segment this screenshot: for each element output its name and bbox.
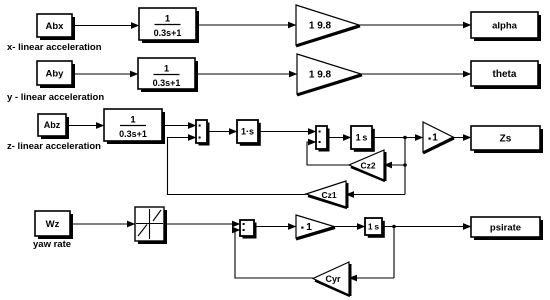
svg-text:1: 1 [306,221,312,233]
svg-text:y - linear acceleration: y - linear acceleration [7,92,104,103]
svg-text:Aby: Aby [46,68,65,79]
svg-text:Abz: Abz [44,120,61,130]
svg-text:1: 1 [164,64,170,75]
svg-text:1 s: 1 s [356,133,368,143]
svg-text:Wz: Wz [46,219,60,230]
svg-text:Zs: Zs [500,134,512,145]
svg-text:0.3s+1: 0.3s+1 [119,129,147,139]
svg-text:1 9.8: 1 9.8 [309,70,332,81]
svg-text:1 s: 1 s [368,222,379,232]
svg-text:1: 1 [432,133,438,144]
svg-text:theta: theta [493,69,517,80]
svg-text:0.3s+1: 0.3s+1 [154,28,182,38]
svg-text:x- linear acceleration: x- linear acceleration [7,42,102,53]
svg-text:alpha: alpha [492,20,518,31]
svg-text:psirate: psirate [490,222,521,233]
svg-text:1·s: 1·s [241,127,254,137]
svg-text:Abx: Abx [46,21,65,32]
svg-text:Cz2: Cz2 [360,161,375,171]
svg-text:yaw rate: yaw rate [33,239,71,250]
svg-text:0.3s+1: 0.3s+1 [153,78,181,88]
svg-text:z- linear acceleration: z- linear acceleration [7,141,101,152]
svg-text:1: 1 [130,115,136,126]
svg-text:Cz1: Cz1 [321,190,336,200]
svg-text:1: 1 [165,14,171,25]
svg-text:Cyr: Cyr [325,274,341,284]
svg-text:1 9.8: 1 9.8 [309,21,332,32]
